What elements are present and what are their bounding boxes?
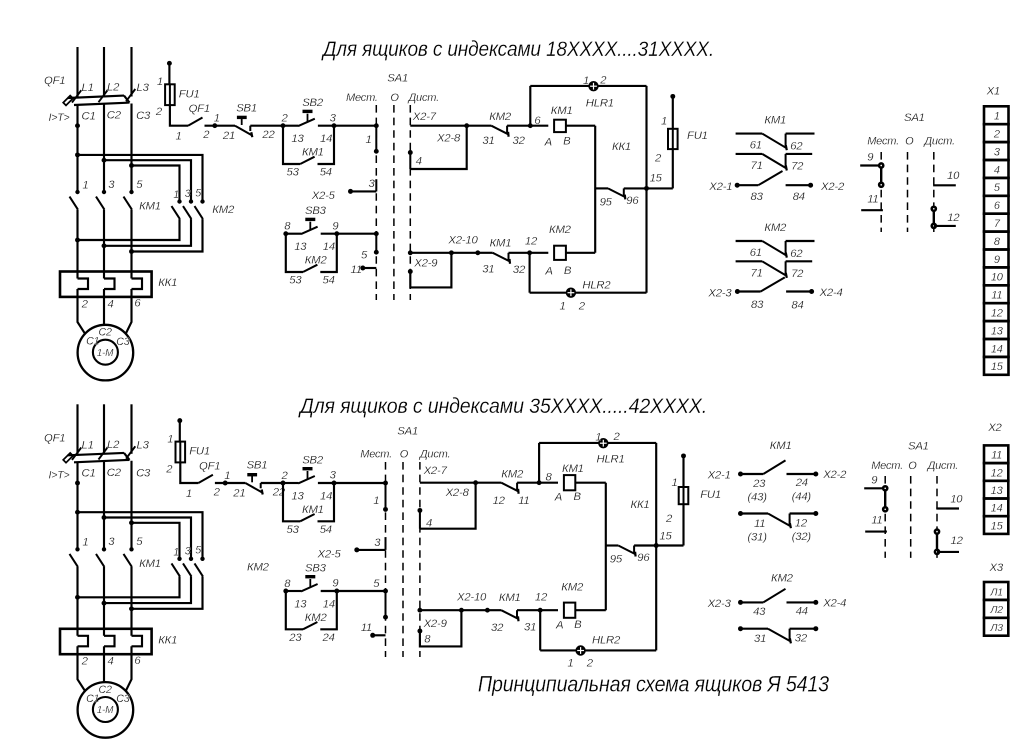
svg-text:HLR2: HLR2 [582,280,611,292]
svg-text:8: 8 [424,633,431,645]
svg-text:2: 2 [654,153,662,165]
break contact KM1 32-31 [501,610,518,621]
wire X2-7 rail [410,125,466,127]
wire phase2 lower [103,567,105,636]
auxiliary contact КМ1 [300,514,314,521]
svg-text:КК1: КК1 [158,634,177,646]
contactor KM2 pole 3 [183,557,193,577]
wire to KM1 contact [487,609,501,611]
svg-text:1: 1 [366,134,372,146]
wire phase1 lower [76,567,78,636]
contactor KM1 pole 3 [96,547,106,567]
wire 84 to X2-4 [786,290,812,292]
svg-text:Х2-9: Х2-9 [423,618,448,630]
fuse FU1 control [165,84,175,105]
svg-text:HLR2: HLR2 [592,635,621,647]
wire SB3 to node 9 [321,590,337,592]
svg-text:72: 72 [791,268,804,280]
break contact KK1 95-96 [608,188,625,199]
terminal 11 dot [370,633,375,638]
terminal strip X2 [984,445,1008,534]
SA1 bridge contact 12 [932,207,936,228]
SA1 contact 4 dot [408,150,413,155]
KK1 heater phase3 [132,279,143,290]
svg-text:96: 96 [626,195,639,207]
svg-text:SB2: SB2 [302,454,324,466]
wire phase1 lower [76,210,78,279]
svg-text:10: 10 [950,493,963,505]
svg-text:32: 32 [795,632,808,644]
svg-text:83: 83 [751,299,764,311]
svg-text:Дист.: Дист. [418,448,450,460]
wire 11 [373,634,386,636]
wire parallel branch left [283,126,300,164]
svg-text:23: 23 [288,632,302,644]
break contact KM1 31-32 [493,253,510,264]
wire parallel branch right [318,483,335,521]
svg-text:24: 24 [322,632,335,644]
wire KM2 pole3 to phase2 bus [104,576,191,603]
svg-text:SA1: SA1 [387,73,408,85]
wire phase1 to motor [78,646,86,691]
svg-text:2: 2 [578,301,586,313]
terminal X2-4 dot [813,600,818,605]
svg-text:1: 1 [82,537,88,549]
svg-text:14: 14 [323,598,335,610]
svg-text:11: 11 [991,290,1002,302]
svg-text:12: 12 [947,212,960,224]
terminal X2-4 dot [809,289,814,294]
svg-text:12: 12 [535,591,548,603]
SA1 dashed Mest [884,476,886,558]
node 8 dot [283,231,288,236]
svg-text:В: В [574,491,582,503]
svg-text:2: 2 [155,106,163,118]
svg-text:С2: С2 [107,110,122,122]
wire node12 to coil KM2 [540,609,558,611]
svg-text:С2: С2 [107,467,122,479]
svg-text:8: 8 [284,578,291,590]
pushbutton SB3 make contact [301,218,318,234]
junction phase3 lower bus [129,606,134,611]
wire FU1 to node15 [672,149,674,188]
svg-text:9: 9 [332,578,339,590]
svg-text:А: А [544,136,552,148]
wire KM2 pole3 to phase2 bus [104,219,191,246]
wire KK1 row left [595,187,608,189]
wire L1 line [76,47,78,97]
SA1 dashed line Dist [409,105,411,300]
motor M outer circle [78,682,134,738]
node 8 dot [537,480,542,485]
svg-text:95: 95 [610,554,623,566]
svg-text:2: 2 [281,113,289,125]
svg-text:Л1: Л1 [989,587,1003,598]
svg-text:14: 14 [320,133,332,145]
svg-text:15: 15 [991,520,1004,532]
wire SB1 to node 2 [250,125,283,127]
svg-text:2: 2 [81,656,89,668]
svg-text:О: О [905,135,914,147]
wire right vertical upper [645,86,647,188]
svg-text:QF1: QF1 [189,103,210,115]
wire X2-9 loop [410,253,451,288]
contactor coil KM2 [564,603,575,618]
wire L2 line [103,47,105,97]
wire X2-5 [351,190,377,192]
svg-text:53: 53 [289,275,302,287]
svg-text:1: 1 [167,433,173,445]
svg-text:О: О [400,448,409,460]
terminal X2-3 dot [735,289,740,294]
wire 44 to X2-4 [787,601,815,603]
wire 12 [934,225,956,227]
svg-text:14: 14 [991,503,1003,515]
svg-text:КМ1: КМ1 [490,237,512,249]
svg-text:Мест.: Мест. [360,448,392,460]
svg-text:Л3: Л3 [989,623,1003,634]
wire bus phase2 to KM2 pole3 [104,518,191,559]
wire parallel branch left [286,234,303,272]
svg-text:3: 3 [108,179,115,191]
svg-text:КМ2: КМ2 [501,468,524,480]
node 15 dot [644,186,649,191]
svg-text:2: 2 [281,470,289,482]
svg-text:(31): (31) [748,532,768,544]
svg-text:31: 31 [482,135,494,147]
break contact 31-32 [738,626,818,643]
node 3 dot [332,481,337,486]
svg-text:11: 11 [871,515,882,527]
wire C2 line [103,462,105,550]
wire KM2 pole1 to phase1 bus [78,219,180,240]
breaker aux contact QF1 [198,475,213,483]
wire C3 line [130,104,132,193]
svg-text:11: 11 [991,450,1002,462]
SA1 dashed O [907,152,909,232]
wire 11 [861,209,883,211]
junction on C1 [75,123,80,128]
junction C2 to KM2 bus [102,515,107,520]
svg-text:КМ1: КМ1 [551,105,573,117]
svg-text:КМ2: КМ2 [305,612,328,624]
svg-text:4: 4 [994,164,1000,176]
svg-text:11: 11 [361,622,372,634]
svg-text:(44): (44) [792,491,812,503]
break contact KM2 12-11 [501,483,518,494]
wire X2-1 [737,184,758,186]
wire coil KM2 right [566,252,595,254]
svg-text:Дист.: Дист. [922,135,954,147]
contactor coil KM1 [564,475,575,490]
SA1 dashed line Mest [385,462,387,657]
svg-text:КМ2: КМ2 [771,572,794,584]
svg-text:О: О [908,460,917,472]
wire rail2 [410,252,478,254]
wire X2-3 [737,290,760,292]
fuse FU1 control [176,442,186,463]
wire right vertical lower [645,188,647,292]
svg-text:КМ1: КМ1 [764,115,786,127]
svg-text:2: 2 [213,486,221,498]
svg-text:2: 2 [202,129,210,141]
wire 84 to X2-2 [786,184,811,186]
junction X2-9 dot [459,608,464,613]
SA1 contact 5 bridge [374,231,379,254]
node 8 dot [283,589,288,594]
wire node6 to coil KM1 [530,125,548,127]
wire X2-7 rail [420,482,476,484]
svg-text:14: 14 [323,241,335,253]
svg-text:1: 1 [157,76,163,88]
terminal X2-1 dot [735,183,740,188]
svg-text:62: 62 [790,248,803,260]
junction X2-8 dot [464,123,469,128]
wire parallel branch right [320,591,337,629]
svg-text:L2: L2 [107,439,120,451]
svg-text:(43): (43) [748,491,768,503]
wire bus phase1 to KM2 pole5 [78,512,203,559]
svg-text:КК1: КК1 [158,277,177,289]
svg-text:SB2: SB2 [302,97,324,109]
wire to KM1 contact [478,252,493,254]
svg-text:5: 5 [373,578,380,590]
svg-text:83: 83 [751,191,764,203]
wire tap to fuse [179,421,181,442]
contactor KM2 pole 3 [183,199,193,219]
svg-text:Х2-4: Х2-4 [819,287,843,299]
svg-text:С3: С3 [136,468,151,480]
SA1 bridge contact 9 [883,486,887,511]
svg-text:КМ1: КМ1 [499,592,521,604]
wire rail2 [420,609,488,611]
node dot [223,481,228,486]
wire phase3 to motor [126,289,132,334]
svg-text:Х2-7: Х2-7 [423,465,448,477]
wire HLR2 to right vertical [575,292,646,294]
svg-text:2: 2 [599,75,607,87]
svg-text:2: 2 [586,658,594,670]
SA1 contact 5 bridge [383,589,388,620]
svg-text:62: 62 [790,140,803,152]
svg-text:43: 43 [753,606,766,618]
contactor coil KM2 [554,246,566,260]
svg-text:Дист.: Дист. [407,92,439,104]
svg-text:Х2-2: Х2-2 [822,469,847,481]
svg-text:Мест.: Мест. [867,135,899,147]
svg-text:КМ2: КМ2 [764,222,787,234]
svg-text:12: 12 [493,495,506,507]
svg-text:КМ1: КМ1 [139,558,161,570]
svg-text:Х2: Х2 [987,422,1002,434]
junction phase2 lower bus [102,601,107,606]
KK1 heater phase2 [104,636,115,647]
SA1 contact 1 bridge [383,481,388,512]
wire to HLR2 [530,292,567,294]
svg-text:1: 1 [595,432,601,444]
svg-text:6: 6 [134,655,141,667]
svg-text:КМ2: КМ2 [561,581,584,593]
wire FU1 to node15 [682,504,684,545]
wire phase2 to motor [103,289,105,325]
svg-text:Х2-7: Х2-7 [412,111,437,123]
svg-text:Х2-1: Х2-1 [708,181,732,193]
svg-text:Мест.: Мест. [871,460,903,472]
lamp HLR2 [575,645,585,655]
svg-text:L2: L2 [107,82,120,94]
wire node9 to SA1 [337,233,377,235]
wire 24 to X2-2 [787,473,815,475]
wire 10 [936,507,959,509]
lamp HLR1 [598,438,608,448]
svg-text:14: 14 [991,343,1003,355]
svg-text:С1: С1 [82,468,96,480]
wire HLR1 to right vertical [598,85,647,87]
svg-text:12: 12 [795,517,808,529]
junction X2-8 dot [473,480,478,485]
contactor KM2 pole 5 [195,199,205,219]
svg-text:КМ1: КМ1 [139,201,161,213]
wire HLR1 branch up [538,443,540,483]
svg-text:4: 4 [108,656,114,668]
pushbutton SB1 break contact [235,116,252,138]
svg-text:Х2-3: Х2-3 [707,287,732,299]
svg-text:4: 4 [426,518,432,530]
terminal dot X2-10 [485,608,490,613]
svg-text:14: 14 [320,490,332,502]
svg-text:2: 2 [613,431,621,443]
svg-text:13: 13 [291,490,304,502]
lamp HLR1 [588,81,598,91]
wire KK1 to node 15 [634,544,683,546]
wire L3 line [130,47,132,97]
break contact KM2 31-32 [491,126,508,137]
svg-text:95: 95 [600,197,613,209]
svg-text:QF1: QF1 [199,460,220,472]
svg-text:Х2-3: Х2-3 [707,598,732,610]
SA1 dashed line Mest [375,105,377,300]
wire KK1 to node 15 [624,187,673,189]
wire QF1 to SB1 [215,482,246,484]
wire L2 line [103,404,105,454]
wire fuse to QF1 contact [180,462,198,483]
wire node8 to coil KM1 [539,482,558,484]
wire KM2 pole1 to phase1 bus [78,576,180,597]
svg-text:9: 9 [867,152,874,164]
svg-text:2: 2 [993,129,1000,141]
svg-text:10: 10 [947,170,960,182]
break contact 11-12 [738,511,818,528]
wire L3 line [130,404,132,454]
SA1 Dist rail2 dot [408,250,413,255]
svg-text:SA1: SA1 [904,112,925,124]
svg-text:О: О [390,92,399,104]
junction phase3 lower bus [129,249,134,254]
SA1 Dist rail2 dot [417,608,422,613]
svg-text:КМ1: КМ1 [770,440,792,452]
SA1 contact 1 bridge [374,123,379,154]
svg-text:3: 3 [369,178,376,190]
svg-text:1: 1 [583,75,589,87]
auxiliary contact КМ1 [300,157,314,164]
svg-text:1: 1 [176,131,182,143]
terminal strip X3 labels [989,587,1003,634]
svg-text:4: 4 [108,298,114,310]
node 6 dot [528,123,533,128]
svg-text:5: 5 [195,545,201,557]
svg-text:1: 1 [994,111,1000,123]
contactor KM1 pole 3 [96,190,106,210]
wire rail to KM2 contact [476,482,502,484]
svg-text:Х2-8: Х2-8 [436,133,461,145]
svg-text:3: 3 [330,470,337,482]
wire coil KM2 right [575,609,606,611]
svg-text:13: 13 [294,598,307,610]
svg-text:1: 1 [672,477,678,489]
control tap dot [177,418,182,423]
svg-text:С3: С3 [116,693,129,705]
wire to HLR1 [530,85,589,87]
wire node to button [283,482,298,484]
svg-text:12: 12 [991,467,1003,479]
svg-text:FU1: FU1 [700,489,721,501]
wire 12 [937,551,959,553]
terminal X2-3 dot [738,600,743,605]
svg-text:9: 9 [994,254,1000,266]
svg-text:А: А [554,491,562,503]
svg-text:1: 1 [560,301,566,313]
wire phase3 lower [130,210,132,279]
wire bus phase1 to KM2 pole5 [78,155,203,202]
svg-text:С1: С1 [86,693,99,705]
circuit breaker QF1 [63,446,135,462]
svg-text:L3: L3 [137,82,150,94]
wire HLR2 branch down [529,253,531,293]
terminal X2-5 dot [348,189,353,194]
svg-text:53: 53 [287,167,300,179]
svg-text:QF1: QF1 [44,432,65,444]
wire SB3 to node 9 [321,233,337,235]
wire X2-5 [357,549,386,551]
node 2 dot [281,481,286,486]
terminal strip X1 [984,106,1009,375]
svg-text:КК1: КК1 [612,141,631,153]
svg-text:FU1: FU1 [189,446,210,458]
svg-text:(32): (32) [792,531,812,543]
svg-text:1: 1 [173,546,179,558]
motor M outer circle [78,325,134,381]
contactor coil KM1 [554,120,566,132]
svg-text:HLR1: HLR1 [597,453,625,465]
wire SB1 to node 2 [261,482,283,484]
circuit breaker QF1 [63,89,135,105]
svg-text:КМ2: КМ2 [247,561,270,573]
KK1 heater phase1 [78,279,89,290]
wire node3 to SA1 [334,125,376,127]
wire X2-8 loop [410,126,466,169]
breaker aux contact QF1 [188,118,203,126]
terminal 11 dot [360,266,365,271]
SA1 contact 4 stub [419,510,421,528]
wire SB2 to node 3 [318,482,334,484]
contactor KM2 pole 5 [195,557,205,577]
svg-text:Х2-5: Х2-5 [311,190,336,202]
wire KK1 row left [606,544,619,546]
KK1 heater phase2 [104,279,115,290]
svg-text:24: 24 [795,477,808,489]
junction C3 to KM2 bus [129,163,134,168]
make contact 43-44 blade [763,589,785,603]
